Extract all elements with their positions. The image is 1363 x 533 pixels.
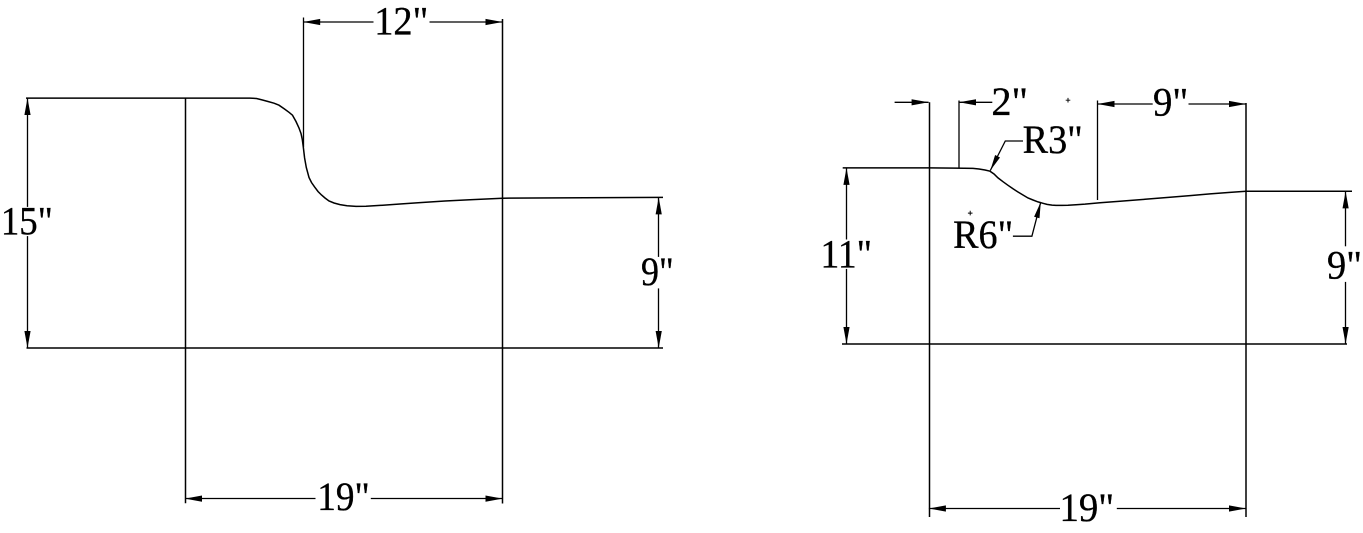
svg-text:9": 9": [641, 249, 674, 294]
svg-text:19": 19": [317, 474, 369, 519]
left part: right vertical edge with extensions: [502, 19, 504, 504]
center mark of R3 arc: plus: [968, 211, 973, 216]
dimension 9in left part: dimension line: [658, 197, 660, 348]
right part: left vertical edge with extensions: [929, 102, 931, 517]
svg-text:12": 12": [374, 0, 428, 44]
left part: left vertical edge with extension below: [185, 98, 187, 503]
dimension 9in right: top arrowhead: [1343, 191, 1349, 208]
svg-text:11": 11": [821, 231, 872, 276]
text mask 15in: [2, 207, 53, 236]
dimension 19in right part: left arrowhead: [929, 505, 946, 511]
dimension 12in: left arrowhead: [303, 19, 320, 25]
dimension 9in top: dimension line: [1098, 103, 1247, 105]
dimension 15in: dimension line: [27, 98, 29, 348]
text mask 12in: [374, 7, 430, 38]
right part: bottom edge with extensions: [842, 343, 1347, 345]
dimension 19in left part: dimension line: [186, 498, 503, 500]
dimension 2in: outside stub line left: [895, 101, 929, 103]
dimension 12in: dimension line: [303, 21, 502, 23]
leader R6: polyline from text to arrow: [1013, 202, 1041, 236]
text mask 9in top: [1153, 88, 1189, 118]
text mask 9in right: [1327, 246, 1361, 282]
dimension 9in left part: top arrowhead: [656, 197, 662, 214]
dimension 19in left part: left arrowhead: [185, 496, 202, 502]
dimension 15in: bottom arrowhead: [24, 331, 30, 348]
leader R6: arrowhead: [1034, 202, 1041, 218]
center mark of R6 arc: plus: [1066, 98, 1071, 103]
svg-text:9": 9": [1153, 79, 1188, 124]
text mask 9in left: [640, 257, 674, 289]
dimension 9in top: left extension line: [1097, 101, 1099, 201]
dimension 2in: outside right arrowhead pointing left: [959, 99, 976, 105]
svg-text:15": 15": [1, 199, 53, 244]
leader R3: polyline from arrow to text: [990, 141, 1023, 171]
dimension 9in top: left arrowhead: [1098, 101, 1115, 107]
dimension 2in: outside left arrowhead pointing right: [912, 99, 929, 105]
svg-text:19": 19": [1059, 485, 1114, 530]
dimension 2in: line from arrow to text: [959, 101, 992, 103]
dimension 12in: left extension line: [303, 18, 305, 148]
dimension 9in top: right arrowhead: [1229, 101, 1246, 107]
dimension 2in: right extension line: [958, 101, 960, 169]
dimension 19in left part: right arrowhead: [486, 496, 503, 502]
text mask 19in right: [1060, 492, 1117, 522]
dimension 9in left part: bottom arrowhead: [656, 331, 662, 348]
leader R3: arrowhead: [990, 155, 1000, 171]
dimension 12in: right arrowhead: [486, 19, 503, 25]
svg-text:R3": R3": [1023, 117, 1083, 162]
left part: bottom edge with extensions: [27, 347, 664, 349]
svg-text:R6": R6": [953, 212, 1013, 257]
right part: top edge and profile with ledge extension: [843, 168, 1352, 206]
dimension 11in: top arrowhead: [843, 168, 849, 185]
right part: right vertical edge with extensions: [1245, 103, 1247, 517]
left part: top edge and curved profile with ledge extension: [26, 98, 663, 206]
svg-text:9": 9": [1327, 243, 1362, 288]
dimension 9in right: dimension line: [1345, 191, 1347, 344]
dimension 15in: top arrowhead: [24, 98, 30, 115]
dimension 9in right: bottom arrowhead: [1343, 327, 1349, 344]
text mask 19in left: [316, 482, 371, 513]
text mask 11in: [823, 240, 872, 269]
dimension 19in right part: dimension line: [929, 508, 1246, 510]
dimension 11in: dimension line: [846, 168, 848, 344]
dimension 19in right part: right arrowhead: [1229, 505, 1246, 511]
dimension 11in: bottom arrowhead: [843, 327, 849, 344]
